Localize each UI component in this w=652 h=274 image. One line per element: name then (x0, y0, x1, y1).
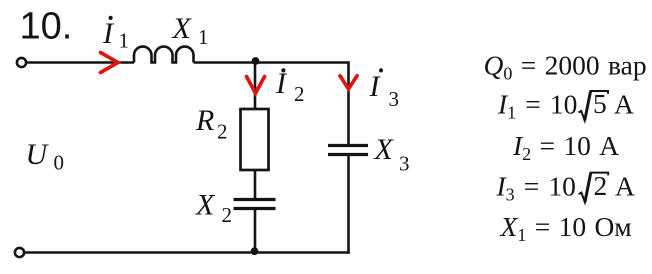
current arrow I3 (red chevron) (340, 76, 357, 89)
label R2 (195, 104, 228, 144)
svg-text:X1 = 10 Ом: X1 = 10 Ом (500, 211, 632, 245)
label X3 (374, 133, 410, 176)
label I2 (275, 67, 305, 106)
svg-text:X: X (172, 12, 193, 45)
svg-text:1: 1 (119, 29, 130, 53)
label I1 (102, 16, 129, 53)
node junction bottom (251, 247, 259, 255)
svg-text:U: U (26, 138, 50, 171)
capacitor X3 (328, 146, 368, 155)
svg-text:I2 = 10 А: I2 = 10 А (512, 130, 619, 164)
svg-text:0: 0 (54, 150, 65, 174)
resistor R2 (241, 109, 269, 170)
svg-text:I3 = 10: I3 = 10 (496, 170, 576, 204)
svg-text:10.: 10. (20, 6, 73, 48)
wire R2 to X2 (254, 170, 257, 198)
svg-text:А: А (615, 170, 635, 201)
svg-text:1: 1 (198, 25, 209, 49)
node junction top (252, 57, 260, 65)
svg-text:X: X (374, 133, 395, 166)
wire branch2 upper (254, 63, 257, 110)
svg-text:А: А (614, 89, 634, 120)
svg-text:2: 2 (294, 82, 305, 106)
given I3 = 10 sqrt2 A (496, 170, 636, 205)
wire branch3 upper (347, 61, 350, 144)
svg-text:I1 = 10: I1 = 10 (497, 89, 577, 123)
capacitor X2 (234, 200, 276, 209)
svg-text:Q0 = 2000 вар: Q0 = 2000 вар (484, 50, 647, 84)
current arrow I1 (red chevron) (101, 53, 119, 73)
svg-text:3: 3 (399, 152, 410, 176)
svg-text:I: I (369, 70, 382, 103)
label I3 (369, 68, 400, 111)
svg-text:3: 3 (389, 87, 400, 111)
wire X3 to bottom (347, 156, 350, 254)
label X2 (195, 189, 232, 228)
bottom wire (24, 251, 350, 254)
svg-text:I: I (275, 67, 288, 100)
current arrow I2 (red chevron) (247, 77, 265, 94)
svg-text:X: X (195, 189, 216, 222)
terminal bottom-left (15, 248, 24, 257)
svg-text:2: 2 (222, 203, 233, 227)
label X1 (172, 12, 209, 49)
wire top-left segment (26, 61, 134, 64)
svg-text:2: 2 (217, 120, 228, 144)
wire X2 to bottom (254, 210, 257, 253)
svg-text:5: 5 (593, 88, 607, 119)
svg-text:I: I (102, 17, 115, 50)
label U0 (26, 138, 65, 174)
svg-text:2: 2 (594, 170, 608, 201)
terminal top-left (17, 58, 26, 67)
wire top-right segment (194, 61, 349, 64)
given I1 = 10 sqrt5 A (497, 88, 634, 123)
svg-text:R: R (195, 104, 214, 137)
inductor X1 (134, 47, 194, 63)
